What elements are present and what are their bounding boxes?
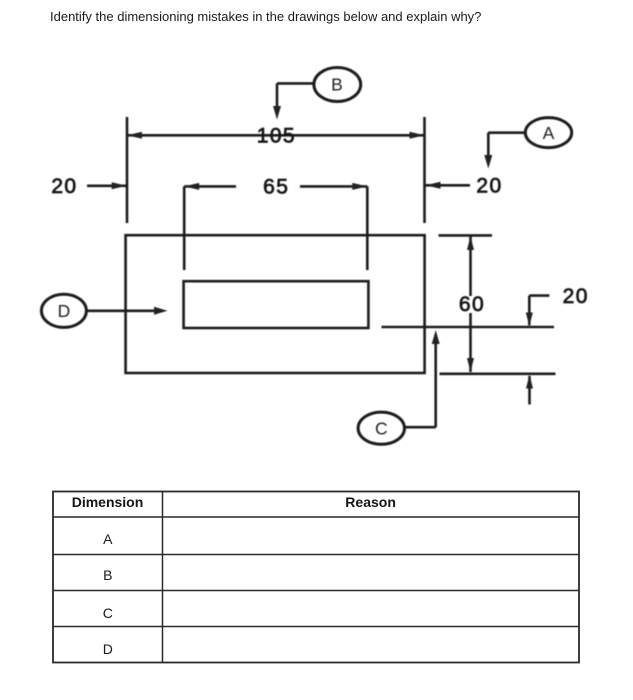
outer rectangle [126, 235, 425, 373]
balloon B letter [331, 75, 343, 95]
svg-text:60: 60 [459, 293, 485, 316]
leader from balloon A [484, 133, 525, 169]
leader from balloon B [273, 83, 314, 119]
svg-text:C: C [103, 605, 113, 621]
svg-text:20: 20 [476, 175, 502, 198]
dimension line 60 (vertical, two arrows) [467, 236, 474, 372]
balloon D [41, 294, 86, 327]
extension line from 65 right arrow down [366, 186, 369, 270]
table row D [103, 641, 113, 657]
table header Dimension [72, 494, 144, 510]
svg-text:D: D [58, 301, 71, 321]
label 65 [263, 176, 289, 199]
leader for 20 far right with down arrow [526, 296, 550, 327]
title text [50, 9, 481, 24]
label 60 [459, 293, 485, 316]
svg-text:B: B [331, 75, 343, 95]
lower right extension line [440, 372, 556, 375]
table row B [103, 567, 112, 583]
balloon A letter [543, 123, 555, 143]
svg-text:65: 65 [263, 176, 289, 199]
balloon C letter [375, 419, 388, 439]
label 20 right upper [476, 175, 502, 198]
svg-text:20: 20 [51, 175, 77, 198]
table grid [53, 492, 579, 663]
svg-text:Reason: Reason [345, 494, 396, 510]
leader arrow for 20 left [87, 182, 127, 189]
svg-text:A: A [543, 123, 555, 143]
label 105 [257, 125, 296, 148]
label 20 left [51, 175, 77, 198]
table row C [103, 605, 113, 621]
table row A [103, 531, 113, 547]
leader from balloon C [405, 330, 440, 427]
dimension line 105 [127, 132, 425, 139]
balloon C [358, 412, 404, 444]
svg-text:C: C [375, 419, 388, 439]
leader arrow for 20 right upper [426, 182, 471, 189]
inner rectangle [184, 281, 369, 328]
svg-text:20: 20 [563, 285, 589, 308]
dimension line 65 [184, 183, 367, 190]
right extension line [423, 117, 426, 223]
svg-text:A: A [103, 531, 113, 547]
svg-text:D: D [103, 641, 113, 657]
svg-text:Dimension: Dimension [72, 494, 144, 510]
table header Reason [345, 494, 396, 510]
left extension line [126, 117, 129, 223]
up arrow below lower extension line for 20 far right [526, 375, 533, 405]
balloon D letter [58, 301, 71, 321]
extension line from inner rect bottom to right [382, 326, 555, 329]
svg-text:105: 105 [257, 125, 296, 148]
svg-text:B: B [103, 567, 112, 583]
label 20 far right [563, 285, 589, 308]
leader from balloon D [86, 307, 167, 315]
balloon B [314, 68, 361, 102]
upper right extension line for 60 [439, 234, 493, 237]
extension line from 65 left arrow down [183, 186, 186, 270]
balloon A [525, 118, 571, 148]
